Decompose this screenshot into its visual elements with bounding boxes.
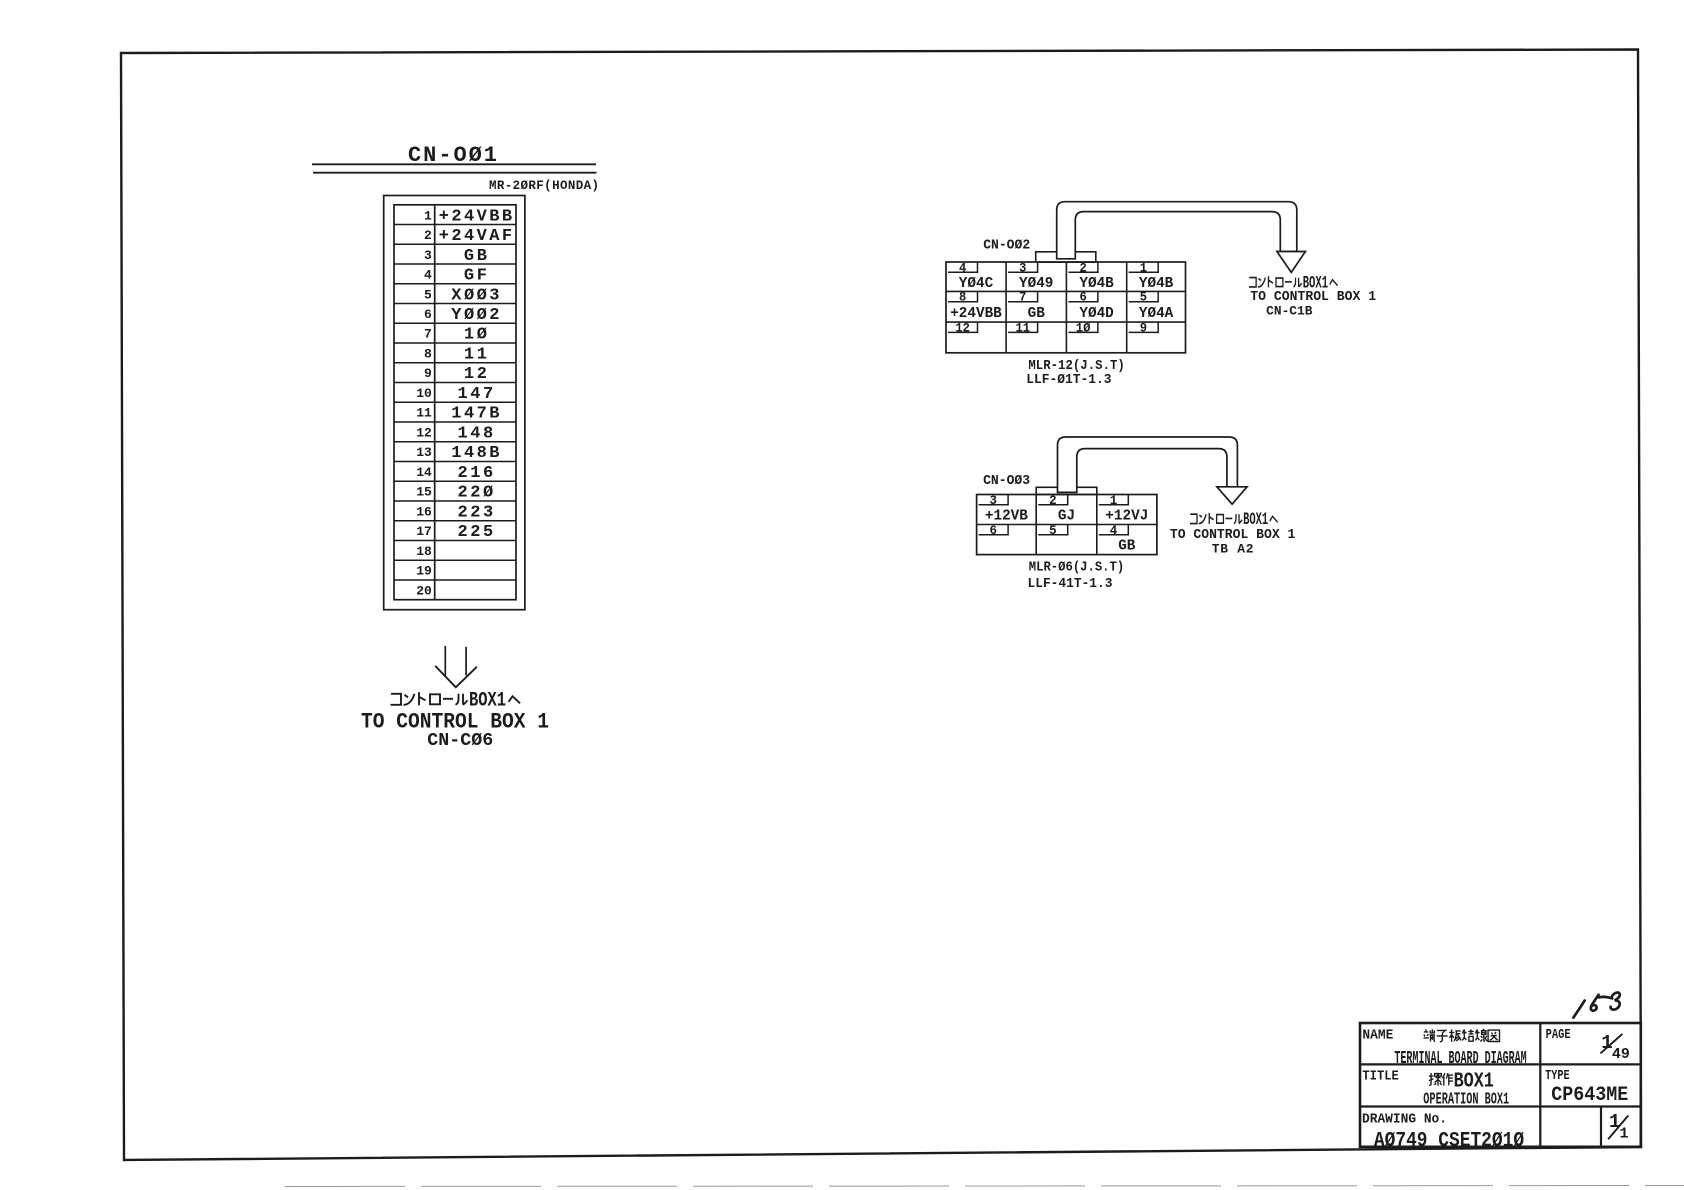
svg-text:20: 20 [416, 583, 432, 598]
svg-text:CN-OØ2: CN-OØ2 [983, 238, 1030, 254]
svg-text:6: 6 [990, 524, 998, 538]
svg-text:AØ749 CSET2Ø1Ø: AØ749 CSET2Ø1Ø [1374, 1129, 1524, 1153]
svg-text:5: 5 [1049, 524, 1057, 538]
svg-text:PAGE: PAGE [1546, 1028, 1571, 1043]
svg-text:4: 4 [1110, 524, 1118, 538]
svg-text:8: 8 [424, 347, 432, 362]
svg-text:CN-C1B: CN-C1B [1266, 304, 1312, 319]
svg-text:BOX1: BOX1 [1454, 1071, 1494, 1094]
svg-text:7: 7 [424, 327, 432, 342]
svg-text:GJ: GJ [1058, 508, 1075, 525]
svg-text:223: 223 [458, 503, 494, 522]
svg-text:1: 1 [1110, 494, 1118, 508]
svg-text:3: 3 [1019, 261, 1026, 275]
svg-text:5: 5 [424, 287, 432, 302]
svg-text:12: 12 [416, 426, 432, 441]
svg-text:LLF-Ø1T-1.3: LLF-Ø1T-1.3 [1026, 373, 1111, 388]
svg-text:148: 148 [458, 425, 494, 444]
svg-text:11: 11 [1016, 321, 1031, 335]
svg-text:+24VBB: +24VBB [950, 305, 1002, 322]
svg-text:TYPE: TYPE [1545, 1069, 1570, 1084]
svg-text:2: 2 [1049, 494, 1057, 508]
svg-text:MR-2ØRF(HONDA): MR-2ØRF(HONDA) [489, 179, 599, 193]
svg-text:225: 225 [458, 523, 494, 542]
svg-text:GB: GB [1028, 305, 1045, 322]
svg-text:216: 216 [458, 464, 494, 483]
svg-text:TITLE: TITLE [1362, 1070, 1398, 1085]
svg-text:MLR-12(J.S.T): MLR-12(J.S.T) [1028, 359, 1125, 374]
svg-text:9: 9 [1140, 321, 1147, 335]
svg-text:DRAWING No.: DRAWING No. [1362, 1112, 1447, 1128]
svg-text:GB: GB [1118, 538, 1135, 555]
svg-text:18: 18 [416, 544, 432, 559]
svg-text:1: 1 [424, 208, 432, 223]
svg-text:1: 1 [1140, 261, 1147, 275]
svg-text:10: 10 [416, 386, 432, 401]
svg-text:2: 2 [424, 228, 432, 243]
svg-text:3: 3 [424, 248, 432, 263]
svg-text:6: 6 [1079, 291, 1086, 305]
svg-text:147: 147 [458, 385, 494, 404]
svg-text:14: 14 [416, 465, 432, 480]
svg-text:49: 49 [1612, 1046, 1630, 1063]
svg-text:MLR-Ø6(J.S.T): MLR-Ø6(J.S.T) [1029, 560, 1124, 575]
svg-text:YØ4B: YØ4B [1139, 275, 1173, 292]
svg-text:13: 13 [416, 445, 432, 460]
svg-text:8: 8 [959, 291, 966, 305]
svg-text:CN-CØ6: CN-CØ6 [427, 730, 493, 751]
svg-text:YØ4B: YØ4B [1079, 275, 1113, 292]
svg-text:3: 3 [990, 494, 998, 508]
svg-text:YØ49: YØ49 [1019, 275, 1053, 292]
svg-text:TB A2: TB A2 [1212, 542, 1254, 557]
svg-text:4: 4 [959, 261, 967, 275]
svg-text:YØ4C: YØ4C [959, 275, 993, 292]
svg-text:17: 17 [416, 524, 432, 539]
svg-text:7: 7 [1019, 291, 1026, 305]
svg-text:11: 11 [416, 406, 432, 421]
svg-text:16: 16 [416, 504, 432, 519]
svg-text:YØ4A: YØ4A [1139, 305, 1173, 322]
svg-text:22Ø: 22Ø [458, 484, 494, 503]
svg-text:12: 12 [955, 321, 970, 335]
svg-text:+12VJ: +12VJ [1105, 508, 1148, 525]
svg-text:15: 15 [416, 485, 432, 500]
svg-text:YØ4D: YØ4D [1079, 305, 1113, 322]
svg-text:1Ø: 1Ø [1076, 321, 1091, 335]
svg-text:NAME: NAME [1362, 1029, 1393, 1044]
svg-text:LLF-41T-1.3: LLF-41T-1.3 [1028, 577, 1113, 592]
svg-text:6: 6 [424, 307, 432, 322]
svg-text:4: 4 [424, 268, 432, 283]
svg-text:19: 19 [416, 564, 432, 579]
svg-text:TERMINAL BOARD DIAGRAM: TERMINAL BOARD DIAGRAM [1394, 1048, 1526, 1069]
svg-text:CP643ME: CP643ME [1551, 1084, 1628, 1107]
svg-text:2: 2 [1079, 261, 1086, 275]
svg-text:5: 5 [1140, 291, 1147, 305]
svg-text:9: 9 [424, 366, 432, 381]
svg-text:CN-OØ3: CN-OØ3 [983, 473, 1030, 489]
svg-text:+12VB: +12VB [985, 508, 1028, 525]
svg-text:1: 1 [1619, 1126, 1628, 1143]
